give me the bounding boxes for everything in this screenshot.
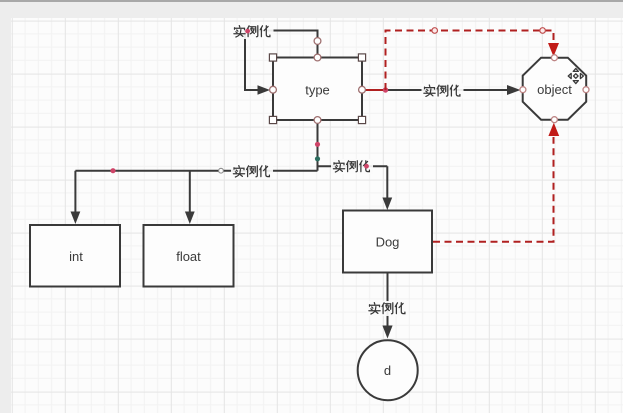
node: Dog box (343, 211, 432, 273)
svg-text:Dog: Dog (376, 235, 400, 250)
top toolbar edge (0, 0, 623, 2)
connection point: object top (551, 55, 557, 61)
label 实例化 on left branch (231, 164, 273, 179)
wire: edge type->object (black) (386, 89, 508, 91)
svg-text:d: d (384, 363, 391, 378)
waypoint dot on vertical (315, 142, 320, 147)
node: d circle (358, 340, 418, 400)
node: type box (273, 58, 362, 121)
waypoint circle near dashed corner (540, 28, 546, 34)
wire: edge type->int/float (down + left branch) (75, 120, 317, 212)
wire: edge Dog->d (387, 273, 389, 327)
selection handle: type left-middle circle (270, 86, 277, 93)
red arrowhead into object bottom (548, 123, 559, 136)
wire: red dashed edge type->object top (386, 31, 554, 91)
wire: edge type->object (red stub) (362, 89, 386, 91)
waypoint dot on right branch (364, 164, 369, 169)
arrowhead into object left (507, 85, 521, 95)
waypoint dot on type right (383, 87, 388, 92)
selection handle: type bottom-left square (269, 116, 276, 123)
arrowhead into int top (71, 212, 81, 225)
wire: red dashed edge Dog->object bottom (433, 137, 554, 242)
label 实例化 on Dog->d (367, 301, 409, 316)
waypoint dot teal on vertical (315, 156, 320, 161)
label 实例化 on self-loop (232, 24, 274, 39)
node: int box (30, 225, 120, 287)
move icon inside octagon (568, 68, 583, 83)
label 实例化 on type->object (422, 83, 464, 98)
wire: drop into float (189, 171, 191, 212)
selection handle: type top-middle circle (314, 54, 321, 61)
label 实例化 on right branch (331, 159, 373, 174)
arrowhead into Dog top (382, 198, 392, 211)
waypoint dot on left branch (110, 168, 115, 173)
arrowhead into d top (382, 326, 392, 339)
selection handle: type top-right square (358, 54, 365, 61)
selection handle: type right-middle circle (359, 86, 366, 93)
waypoint circle on self-loop top segment (314, 38, 321, 45)
connection point: object right (583, 87, 589, 93)
svg-text:type: type (305, 83, 330, 98)
selection handle: type bottom-right square (358, 116, 365, 123)
red arrowhead into object top (548, 43, 559, 57)
node: float box (144, 225, 234, 287)
svg-text:float: float (176, 249, 201, 264)
wire: edge type->Dog (right branch) (318, 120, 388, 198)
arrowhead into float top (185, 212, 195, 225)
wire: self-loop edge type->type (245, 31, 318, 91)
selection handle: type top-left square (269, 54, 276, 61)
connection point: object left (520, 87, 526, 93)
arrowhead into type left (258, 85, 271, 94)
waypoint dot gray on left branch (219, 168, 224, 173)
svg-text:object: object (537, 82, 572, 97)
node: object octagon (523, 58, 587, 120)
connection point: object bottom (551, 117, 557, 123)
svg-text:int: int (69, 249, 83, 264)
waypoint dot on self-loop corner (245, 29, 250, 34)
selection handle: type bottom-middle circle (314, 117, 321, 124)
waypoint circle on dashed top segment (432, 28, 438, 34)
